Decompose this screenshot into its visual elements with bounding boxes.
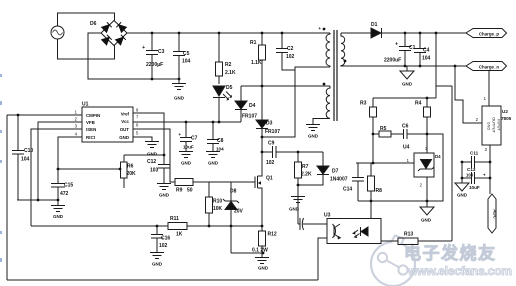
- transformer primary winding: [326, 33, 330, 67]
- wire U1 OUT to gate resistor: [133, 129, 175, 182]
- capacitor C14: [352, 163, 364, 201]
- wire primary bottom to drain node: [262, 67, 330, 137]
- capacitor C1: [399, 33, 411, 66]
- watermark logo circle: [371, 236, 415, 286]
- wire divider top rail y98: [373, 97, 436, 99]
- diode D1: [371, 28, 382, 38]
- wire aux bottom to ground: [313, 119, 330, 125]
- ground GND (C8): [206, 152, 220, 158]
- wire secondary bottom rail y66: [341, 65, 466, 67]
- resistor R11: [168, 223, 187, 230]
- wire ground bus y200: [17, 199, 58, 201]
- wire gate line: [193, 181, 255, 183]
- ground GND (U1): [145, 142, 159, 148]
- wire opto to R13: [381, 240, 398, 242]
- capacitor C3: [146, 33, 158, 79]
- resistor R12: [261, 226, 263, 253]
- wire U1 pin2 VFB: [38, 122, 82, 200]
- transformer aux winding: [326, 86, 330, 118]
- connector Charge_n: [466, 62, 507, 71]
- wire U2 pin3 output: [489, 145, 491, 194]
- wire aux winding line y86: [241, 85, 330, 87]
- ground GND (C7): [179, 152, 193, 158]
- wire secondary output rail y33: [341, 32, 466, 34]
- connector ADC: [488, 194, 496, 233]
- wire bridge negative output to ground bus y79: [88, 33, 180, 79]
- MOSFET Q1: [255, 152, 262, 226]
- bridge rectifier D6 diamond: [101, 21, 127, 46]
- capacitor C10: [12, 115, 24, 200]
- ground GND (R12): [255, 253, 269, 264]
- transformer T1 core: [334, 30, 337, 121]
- wire COMP left vertical to bottom rail: [6, 115, 8, 280]
- resistor R9: [175, 179, 193, 186]
- capacitor C5: [173, 33, 185, 79]
- capacitor C2: [276, 33, 295, 70]
- wire opto feed from divider node: [436, 86, 452, 241]
- wire current sense bus y226: [31, 225, 262, 227]
- resistor R7: [297, 152, 299, 185]
- capacitor C15: [51, 169, 65, 200]
- resistor R5: [373, 133, 403, 135]
- bridge diode top-left: [102, 22, 112, 32]
- IC U2 regulator box: [482, 106, 501, 145]
- wire Charge_n to U2 pin2: [455, 66, 482, 123]
- opto LED: [353, 227, 368, 237]
- capacitor C8: [207, 122, 219, 151]
- resistor R10: [208, 182, 210, 226]
- resistor R1: [261, 33, 263, 86]
- wire Vref jog to R6 top and C12: [124, 113, 164, 164]
- wire U1 GND pin to ground: [133, 137, 152, 141]
- IC U1 PWM controller box: [82, 107, 133, 142]
- diode D7 1N4007: [298, 152, 329, 185]
- bridge diode top-right: [116, 22, 126, 32]
- wire main HV rail y33: [127, 32, 330, 34]
- ground GND (R7) with coupling cap to opto: [291, 185, 327, 230]
- bridge diode bottom-right: [116, 35, 126, 45]
- zener D8: [223, 182, 239, 253]
- wire U1 pin3 ISEN: [31, 129, 82, 226]
- ground (secondary output): [400, 66, 414, 79]
- capacitor C9 snubber: [262, 146, 323, 158]
- ground GND (C13): [455, 178, 469, 191]
- IC U4 TL431 box: [414, 153, 434, 177]
- connector Charge_p: [466, 29, 507, 38]
- diode D4 FR107: [235, 86, 247, 122]
- wire VCC rail y122: [133, 121, 241, 123]
- wire bottom rail: [7, 279, 318, 281]
- wire RtCt to R6: [58, 168, 120, 170]
- LED D5: [213, 86, 225, 122]
- wire AC bottom to bridge bottom: [58, 39, 115, 59]
- capacitor C11: [462, 156, 490, 168]
- capacitor C7: [180, 122, 192, 151]
- ground GND (C16): [150, 253, 164, 259]
- capacitor C13: [462, 162, 490, 184]
- resistor R3: [372, 98, 374, 163]
- capacitor C4: [414, 33, 426, 66]
- wire U4 ref rail y163: [356, 162, 414, 164]
- wire D8 bottom to R12 bottom: [231, 252, 262, 254]
- resistor R8: [370, 163, 372, 201]
- resistor R4: [426, 98, 428, 153]
- capacitor C6: [404, 129, 444, 201]
- transformer secondary winding: [341, 33, 345, 67]
- wire opto emitter to bottom rail: [318, 238, 327, 280]
- ground GND (C12): [157, 184, 171, 190]
- diode D3 FR107: [256, 86, 268, 152]
- scan specks left edge: [0, 74, 2, 262]
- wire opto LED anode riser: [370, 201, 372, 219]
- wire U1 pin4 RtCt: [58, 137, 82, 169]
- ground GND (C15): [51, 200, 65, 212]
- wire Vout+ sense vertical x436: [435, 33, 437, 98]
- wire AC top to bridge top: [58, 13, 115, 26]
- resistor R2: [218, 33, 220, 84]
- wire U4 anode to ground: [420, 177, 434, 215]
- ground GND (aux): [306, 125, 320, 131]
- wire lower rail y201: [358, 200, 427, 202]
- AC source V1: [51, 26, 64, 39]
- optocoupler U3 box: [327, 219, 381, 244]
- resistor R13: [398, 238, 418, 245]
- opto phototransistor: [333, 224, 341, 239]
- capacitor C12: [158, 165, 170, 184]
- ground GND (input filter): [172, 79, 186, 90]
- wire U1 pin1 CMPIN: [7, 114, 82, 116]
- wire U2 pin1 input: [488, 70, 490, 106]
- resistor R6: [123, 155, 125, 188]
- bridge diode bottom-left: [102, 35, 112, 45]
- capacitor C16: [151, 226, 163, 252]
